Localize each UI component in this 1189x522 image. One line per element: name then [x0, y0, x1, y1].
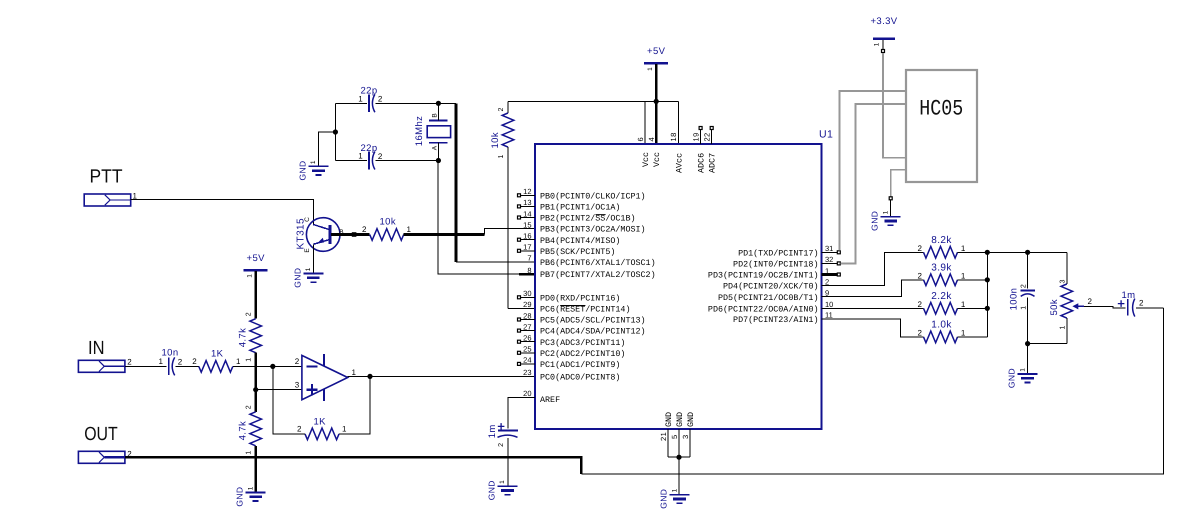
wire R5 to op-amp inverting input [233, 365, 302, 367]
svg-text:22: 22 [702, 132, 711, 141]
svg-text:31: 31 [825, 244, 833, 253]
svg-text:2: 2 [378, 152, 383, 161]
connector X1 PTT [84, 194, 131, 206]
wire pin32 INT0 to HC05 (black stub) [822, 262, 838, 264]
svg-text:PD6(PCINT22/OC0A/AIN0): PD6(PCINT22/OC0A/AIN0) [708, 304, 819, 314]
svg-text:21: 21 [659, 432, 668, 441]
wire to crystal ground symbol [318, 132, 335, 166]
svg-text:U1: U1 [819, 129, 833, 141]
potentiometer R11 50k [1066, 252, 1068, 284]
svg-text:10n: 10n [162, 348, 179, 359]
svg-text:1: 1 [647, 67, 654, 71]
svg-text:2: 2 [918, 329, 923, 338]
svg-text:18: 18 [669, 132, 678, 141]
svg-text:1: 1 [246, 274, 253, 278]
svg-text:27: 27 [523, 322, 531, 331]
wire R9 to summing rail [958, 307, 988, 309]
wire crystal A to IC pin 8 [438, 161, 535, 275]
svg-text:HC05: HC05 [919, 97, 963, 122]
svg-text:2: 2 [178, 357, 183, 366]
svg-text:1K: 1K [211, 348, 224, 359]
svg-text:PB6(PCINT6/XTAL1/TOSC1): PB6(PCINT6/XTAL1/TOSC1) [540, 258, 656, 268]
wire R1 to IC pin 29 [508, 307, 535, 309]
svg-text:1: 1 [1019, 368, 1026, 372]
svg-text:AREF: AREF [540, 395, 560, 405]
svg-text:1: 1 [310, 160, 317, 164]
wire 100n bottom rail [1028, 343, 1067, 345]
svg-text:23: 23 [523, 368, 531, 377]
svg-text:1.0k: 1.0k [931, 320, 952, 331]
svg-text:1: 1 [961, 329, 966, 338]
junction crystal pin B [436, 101, 441, 106]
wire rail to AVcc pin18 [677, 101, 679, 144]
svg-text:10k: 10k [380, 217, 397, 228]
svg-text:1: 1 [498, 154, 505, 158]
svg-text:PB4(PCINT4/MISO): PB4(PCINT4/MISO) [540, 236, 620, 246]
wire OUT bottom run to right edge [581, 308, 1163, 474]
wire R8 to summing rail [958, 279, 988, 281]
junction GND bus [676, 455, 681, 460]
svg-text:8.2k: 8.2k [931, 235, 952, 246]
svg-text:PD2(INT0/PCINT18): PD2(INT0/PCINT18) [733, 260, 818, 270]
svg-text:14: 14 [523, 209, 531, 218]
svg-text:GND: GND [235, 487, 245, 507]
svg-text:2: 2 [297, 425, 302, 434]
svg-text:PB7(PCINT7/XTAL2/TOSC2): PB7(PCINT7/XTAL2/TOSC2) [540, 270, 656, 280]
svg-text:100n: 100n [1008, 288, 1019, 311]
svg-text:1: 1 [342, 425, 347, 434]
module HC05 box [906, 70, 977, 182]
svg-text:Vcc: Vcc [641, 152, 651, 167]
svg-text:5: 5 [670, 434, 679, 439]
ground (transistor emitter) [303, 273, 323, 275]
wire C2 left to gnd riser [335, 160, 367, 162]
junction rail row1 [985, 250, 990, 255]
svg-text:20: 20 [523, 389, 531, 398]
junction 100n bottom [1025, 341, 1030, 346]
svg-text:1: 1 [499, 480, 506, 484]
svg-text:GND: GND [1007, 368, 1017, 388]
svg-text:PC1(ADC1/PCINT9): PC1(ADC1/PCINT9) [540, 360, 620, 370]
ground (IC) [670, 494, 690, 496]
svg-text:PC4(ADC4/SDA/PCINT12): PC4(ADC4/SDA/PCINT12) [540, 327, 646, 337]
svg-text:IN: IN [88, 338, 105, 359]
svg-text:PC2(ADC2/PCINT10): PC2(ADC2/PCINT10) [540, 349, 625, 359]
wire base to R2 (thick) [331, 233, 369, 236]
capacitor C5 100n [1027, 252, 1029, 288]
svg-text:2.2k: 2.2k [931, 291, 952, 302]
svg-text:GND: GND [664, 412, 674, 427]
svg-text:2: 2 [498, 443, 505, 447]
svg-text:10: 10 [825, 300, 833, 309]
svg-text:1: 1 [961, 272, 966, 281]
svg-text:3.9k: 3.9k [931, 263, 952, 274]
svg-text:1: 1 [352, 368, 357, 377]
svg-text:PC5(ADC5/SCL/PCINT13): PC5(ADC5/SCL/PCINT13) [540, 316, 646, 326]
wire +3.3V stub [882, 40, 884, 49]
svg-text:2: 2 [825, 277, 829, 286]
svg-text:17: 17 [523, 243, 531, 252]
svg-text:2: 2 [498, 107, 505, 111]
junction node at op-amp plus input [253, 387, 258, 392]
svg-text:B: B [432, 113, 439, 118]
wire feedback from output [339, 376, 370, 434]
wire R7 to summing rail [958, 251, 988, 253]
wire HC05 gnd [890, 200, 892, 216]
ground (ladder) [1018, 373, 1038, 375]
resistor R1 10k (reset pullup) [507, 101, 509, 113]
svg-text:15: 15 [523, 220, 531, 229]
svg-text:E: E [304, 248, 311, 253]
svg-text:16: 16 [523, 232, 531, 241]
svg-text:10k: 10k [490, 132, 501, 149]
svg-text:PD3(PCINT19/OC2B/INT1): PD3(PCINT19/OC2B/INT1) [708, 271, 819, 281]
svg-text:GND: GND [659, 489, 669, 509]
svg-text:+5V: +5V [247, 253, 266, 264]
svg-text:1: 1 [407, 225, 412, 234]
svg-text:PB1(PCINT1/OC1A): PB1(PCINT1/OC1A) [540, 203, 620, 213]
svg-text:29: 29 [523, 300, 531, 309]
wire to IC ground symbol [678, 457, 680, 494]
svg-text:28: 28 [523, 311, 531, 320]
wire PTT to transistor collector [131, 200, 314, 225]
svg-text:24: 24 [523, 356, 531, 365]
svg-text:4.7k: 4.7k [237, 421, 248, 441]
wire pin11 PD7 to R10 [822, 319, 924, 337]
svg-text:ADC6: ADC6 [697, 153, 707, 173]
wire op-amp output to IC pin 23 [348, 375, 535, 377]
junction rail row3 [985, 306, 990, 311]
svg-text:3: 3 [295, 381, 300, 390]
svg-text:PB3(PCINT3/OC2A/MOSI): PB3(PCINT3/OC2A/MOSI) [540, 225, 646, 235]
svg-text:2: 2 [246, 312, 253, 316]
svg-text:1: 1 [159, 357, 164, 366]
svg-text:PD5(PCINT21/OC0B/T1): PD5(PCINT21/OC0B/T1) [718, 293, 819, 303]
svg-text:32: 32 [825, 255, 833, 264]
svg-text:3: 3 [681, 434, 690, 439]
svg-text:4: 4 [647, 137, 656, 142]
svg-text:PC3(ADC3/PCINT11): PC3(ADC3/PCINT11) [540, 338, 625, 348]
svg-text:2: 2 [192, 357, 197, 366]
wire IN to C4 [125, 365, 166, 367]
svg-text:2: 2 [918, 272, 923, 281]
wire to ladder ground [1027, 344, 1029, 374]
svg-text:GND: GND [675, 412, 685, 427]
svg-text:2: 2 [1020, 284, 1027, 288]
wire +3.3V to HC05 grey [883, 53, 906, 158]
svg-text:4.7k: 4.7k [237, 328, 248, 348]
wire emitter to ground [312, 244, 314, 273]
svg-text:1: 1 [874, 42, 881, 46]
svg-text:8: 8 [527, 266, 531, 275]
svg-text:1m: 1m [487, 424, 498, 438]
wire C1 to XTAL1 net (thick riser) [376, 102, 456, 104]
svg-text:PD7(PCINT23/AIN1): PD7(PCINT23/AIN1) [733, 315, 818, 325]
svg-text:7: 7 [527, 254, 531, 263]
svg-text:PC6(RESET/PCINT14): PC6(RESET/PCINT14) [540, 305, 630, 315]
svg-text:1: 1 [358, 152, 363, 161]
svg-text:GND: GND [486, 480, 496, 500]
junction 100n tap [1025, 250, 1030, 255]
svg-text:+3.3V: +3.3V [870, 16, 897, 27]
svg-text:PB5(SCK/PCINT5): PB5(SCK/PCINT5) [540, 247, 615, 257]
svg-text:25: 25 [523, 345, 531, 354]
svg-text:2: 2 [918, 244, 923, 253]
svg-text:PD4(PCINT20/XCK/T0): PD4(PCINT20/XCK/T0) [723, 282, 819, 292]
svg-text:1: 1 [358, 95, 363, 104]
junction +5V rail [654, 99, 659, 104]
svg-text:+5V: +5V [647, 46, 666, 57]
wire pin2 PD4 to R7 [822, 252, 924, 285]
svg-text:OUT: OUT [84, 424, 118, 445]
ground (AREF) [497, 485, 517, 487]
svg-text:1: 1 [236, 357, 241, 366]
wire +5V drop to Vcc pin4 (thick) [655, 64, 658, 144]
svg-text:PTT: PTT [90, 167, 123, 188]
wire HC05 GND stub grey [891, 170, 906, 197]
svg-text:2: 2 [362, 225, 367, 234]
svg-text:GND: GND [686, 412, 696, 427]
svg-text:1K: 1K [314, 416, 327, 427]
svg-text:AVcc: AVcc [674, 153, 684, 173]
wire pin10 PD6 to R9 [822, 307, 924, 309]
svg-text:GND: GND [292, 268, 302, 288]
wire bias node to op-amp plus input [256, 389, 302, 391]
wire GND bus under IC [668, 456, 690, 458]
junction caps-gnd [333, 129, 338, 134]
wire pin31 TXD to HC05 (black stub) [822, 251, 838, 253]
svg-text:26: 26 [523, 334, 531, 343]
junction node at op-amp minus input [270, 364, 275, 369]
svg-text:GND: GND [297, 160, 307, 180]
svg-text:PD1(TXD/PCINT17): PD1(TXD/PCINT17) [738, 248, 818, 258]
wire R2 to IC pin 15 [404, 233, 485, 236]
wire pin1 PD3 stub (thick) [822, 273, 838, 276]
ground (bias divider) [246, 491, 266, 493]
junction at output feedback tap [367, 374, 372, 379]
svg-text:12: 12 [523, 187, 531, 196]
wire pot wiper to C6 [1084, 306, 1126, 308]
wire to IC pin 7 [456, 261, 535, 263]
wire C7 to ground [507, 438, 509, 486]
wire +5V to R3 [254, 271, 257, 319]
svg-text:2: 2 [246, 405, 253, 409]
svg-text:Vcc: Vcc [652, 152, 662, 167]
svg-text:2: 2 [378, 95, 383, 104]
wire summing node to 50k pot [987, 251, 1067, 253]
svg-text:30: 30 [523, 289, 531, 298]
svg-text:1: 1 [248, 486, 255, 490]
svg-text:1: 1 [1020, 305, 1027, 309]
wire rail to Vcc pin6 [644, 101, 646, 144]
wire pin31 to HC05 grey [840, 91, 907, 250]
svg-text:13: 13 [523, 198, 531, 207]
connector X3 OUT [78, 451, 125, 463]
wire pin9 PD5 to R8 [822, 280, 924, 297]
wire OUT bus (thick) [125, 457, 582, 474]
wire C6 to OUT riser [1136, 307, 1164, 309]
svg-text:A: A [432, 145, 439, 150]
svg-text:PB0(PCINT0/CLKO/ICP1): PB0(PCINT0/CLKO/ICP1) [540, 191, 646, 201]
svg-text:2: 2 [1088, 297, 1093, 306]
svg-text:3: 3 [1059, 279, 1066, 283]
svg-text:2: 2 [918, 300, 923, 309]
svg-text:1: 1 [883, 210, 890, 214]
svg-text:1: 1 [246, 358, 253, 362]
wire pin32 to HC05 grey [841, 104, 906, 263]
wire C4 to R5 [176, 365, 199, 367]
IC U1 ATmega328 body [535, 144, 822, 429]
wire +5V rail [508, 100, 678, 102]
wire summing rail [986, 252, 988, 337]
wire R10 to summing rail [958, 336, 988, 338]
wire feedback to inverting input [273, 366, 305, 434]
svg-text:ADC7: ADC7 [708, 153, 718, 173]
svg-text:50k: 50k [1049, 299, 1060, 316]
svg-text:PC0(ADC0/PCINT8): PC0(ADC0/PCINT8) [540, 373, 620, 383]
svg-text:1: 1 [1059, 325, 1066, 329]
svg-text:1: 1 [961, 300, 966, 309]
svg-text:C: C [304, 217, 311, 222]
ground (HC05) [881, 216, 901, 218]
junction rail row2 [985, 277, 990, 282]
transistor Q1 KT315 [306, 218, 340, 252]
svg-text:19: 19 [691, 132, 700, 141]
svg-text:1: 1 [961, 244, 966, 253]
wire R3 to node and to R4 [254, 353, 257, 412]
svg-text:11: 11 [825, 311, 833, 320]
svg-text:6: 6 [636, 137, 645, 142]
svg-text:PD0(RXD/PCINT16): PD0(RXD/PCINT16) [540, 293, 620, 303]
svg-text:1: 1 [246, 450, 253, 454]
svg-text:GND: GND [870, 211, 880, 231]
ground (crystal caps) [308, 165, 328, 167]
wire C1 left to gnd riser [335, 102, 367, 104]
op-amp U2 [302, 355, 348, 399]
svg-text:2: 2 [127, 357, 132, 366]
wire cap ground riser [334, 103, 336, 160]
svg-text:2: 2 [1139, 299, 1144, 308]
svg-text:PB2(PCINT2/SS/OC1B): PB2(PCINT2/SS/OC1B) [540, 214, 636, 224]
svg-text:1: 1 [671, 488, 678, 492]
svg-text:2: 2 [295, 357, 300, 366]
svg-text:16Mhz: 16Mhz [414, 116, 425, 147]
connector X2 IN [78, 360, 125, 372]
svg-text:9: 9 [825, 289, 829, 298]
wire R4 to ground [254, 446, 257, 492]
wire C2 to XTAL2 net [376, 160, 439, 162]
junction crystal pin A [436, 158, 441, 163]
wire AREF to C7 [508, 397, 535, 428]
svg-text:1: 1 [305, 267, 312, 271]
